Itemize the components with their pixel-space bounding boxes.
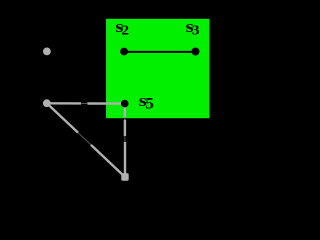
node A (isolated gray)	[43, 48, 51, 56]
svg-text:5: 5	[145, 95, 154, 113]
wire: edge B-C thin under-line	[47, 103, 125, 177]
green set region rectangle	[106, 19, 210, 118]
label s2	[115, 18, 129, 39]
node s3 dot	[192, 48, 200, 56]
label s5	[139, 91, 154, 112]
wire: edge B-C dashed overlay	[47, 103, 125, 177]
wire: edge B-s5 thin under-line	[47, 102, 125, 104]
svg-text:3: 3	[192, 23, 200, 38]
node s5 dot	[121, 100, 129, 108]
label s3	[186, 18, 200, 39]
wire: edge s5-C thin under-line	[124, 104, 126, 177]
wire: edge B-s5 dashed overlay	[47, 102, 125, 105]
node s2 dot	[120, 48, 128, 56]
svg-text:2: 2	[121, 23, 129, 38]
wire: black edge s2-s3	[124, 51, 195, 53]
node B (gray, left)	[43, 99, 51, 107]
wire: edge s5-C dashed overlay	[124, 104, 127, 177]
node C (gray square, bottom)	[121, 173, 128, 180]
